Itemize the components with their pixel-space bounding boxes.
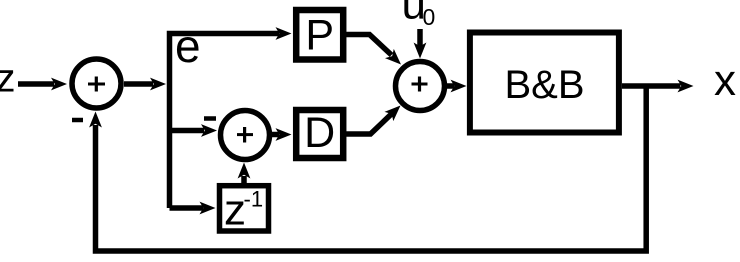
arrowhead into P — [276, 27, 292, 40]
minus sign at S1 feedback input — [72, 118, 83, 123]
wire D to sum S3 — [346, 112, 394, 134]
wire branch to sum S2 — [167, 128, 204, 134]
wire branch down to z^-1 — [170, 205, 204, 211]
svg-text:P: P — [305, 11, 334, 59]
wire S2 to D — [272, 132, 279, 138]
wire P to sum S3 — [346, 35, 392, 56]
svg-text:e: e — [175, 20, 201, 72]
minus sign at S2 input — [204, 116, 216, 121]
block B&B — [470, 33, 619, 133]
wire z to sum S1 — [18, 81, 54, 87]
svg-text:-1: -1 — [244, 187, 264, 212]
summing junction S3 — [396, 62, 445, 111]
svg-text:z: z — [0, 57, 16, 101]
wire u0 to sum S3 — [417, 29, 423, 47]
node e branch vertical wire — [170, 34, 280, 209]
svg-text:0: 0 — [423, 4, 436, 30]
wire S1 to node e — [124, 81, 153, 87]
block z^-1 — [220, 186, 269, 231]
wire B&B to output x — [622, 83, 681, 89]
svg-text:D: D — [304, 109, 335, 157]
block P — [296, 10, 343, 60]
wire S3 to B&B — [446, 83, 454, 89]
block D — [296, 110, 343, 158]
wire z^-1 up to sum S2 — [241, 176, 247, 184]
feedback wire from output down, across bottom, up to S1 — [96, 86, 647, 251]
summing junction S1 — [72, 59, 121, 108]
svg-text:x: x — [714, 56, 736, 105]
svg-text:B&B: B&B — [504, 63, 584, 107]
summing junction S2 — [221, 111, 270, 160]
